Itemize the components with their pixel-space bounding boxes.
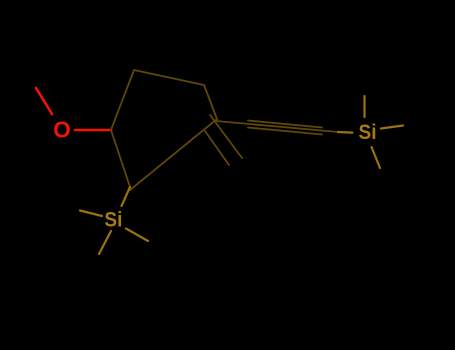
svg-text:O: O xyxy=(53,117,71,143)
svg-text:Si: Si xyxy=(104,209,122,232)
svg-text:Si: Si xyxy=(359,121,377,144)
